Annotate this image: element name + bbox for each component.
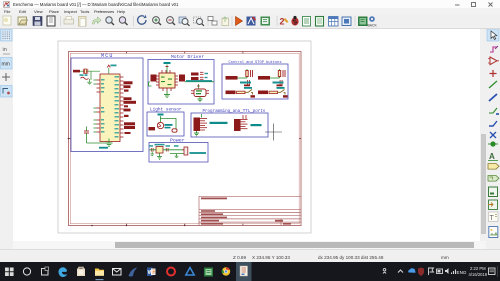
- BOM: [316, 17, 324, 27]
- resistor R6: [172, 129, 177, 132]
- net labels right of MCU: [124, 81, 137, 129]
- svg-text:2:22 PM: 2:22 PM: [470, 266, 486, 271]
- svg-text:Power: Power: [170, 138, 185, 144]
- motor connector J2: [151, 75, 157, 82]
- save: [33, 17, 42, 26]
- edit symbol fields table: [329, 17, 339, 27]
- J6 pins: [241, 120, 248, 129]
- edit fields: [303, 17, 311, 27]
- show desktop divider: [497, 266, 499, 277]
- capacitor below wire: [248, 80, 250, 86]
- DC jack J7: [183, 147, 188, 155]
- svg-text:Programming_ana_TTL_ports: Programming_ana_TTL_ports: [203, 109, 266, 114]
- active app: eeschema: [236, 262, 252, 281]
- triangle app: [186, 268, 194, 276]
- driver IC inner text: [161, 77, 172, 86]
- library browser: [261, 17, 271, 26]
- svg-text:mm: mm: [2, 62, 10, 68]
- J6 field text: [251, 124, 262, 126]
- Programming section box: [191, 113, 268, 137]
- ground below crystal: [87, 79, 92, 85]
- wire to bus entry: [489, 108, 497, 113]
- resistor R5: [269, 91, 278, 93]
- J5 pins: [200, 119, 207, 131]
- capacitor C6 field text: [205, 73, 209, 74]
- zoom fit: [179, 17, 186, 23]
- scrollbars: [13, 241, 486, 249]
- right toolbar: [486, 29, 500, 262]
- vcc text: [174, 145, 179, 147]
- chrome: [222, 267, 230, 275]
- edge: [59, 267, 68, 277]
- page frame inner border: [70, 53, 299, 223]
- svg-text:W: W: [148, 270, 154, 276]
- capacitor below wire: [280, 80, 282, 86]
- net label stop1: [226, 91, 236, 95]
- Power section box: [149, 143, 208, 163]
- ERC ladybug: [291, 18, 298, 26]
- svg-text:in: in: [3, 47, 7, 53]
- decoupling capacitor C5: [84, 127, 89, 144]
- cursor shape: [2, 73, 10, 81]
- grid toggle (active): [1, 30, 13, 42]
- tray: people: [383, 268, 386, 273]
- cursor crosshair: [265, 124, 282, 141]
- net label btn2: [258, 76, 270, 80]
- stub below wire: [197, 84, 199, 89]
- switch SW1 label: [244, 87, 252, 89]
- footprint assign: [342, 17, 351, 26]
- units mm (active): [1, 58, 13, 70]
- MCU left pins: [97, 80, 101, 132]
- hierarchical label: [488, 176, 499, 182]
- motor driver IC U3: [159, 73, 175, 88]
- print (pale): [64, 19, 74, 24]
- run simulator (red play): [236, 17, 243, 26]
- svg-text:2: 2: [280, 17, 285, 27]
- ms office swoosh: [129, 268, 138, 277]
- left toolbar: [0, 29, 13, 262]
- J4 inner text: [196, 90, 202, 94]
- regulator U4: [156, 147, 163, 154]
- capacitor C6: [200, 72, 204, 79]
- separator: [354, 16, 356, 26]
- find: [106, 17, 112, 23]
- wire to MCU ground: [87, 142, 110, 144]
- field text: [240, 82, 251, 84]
- svg-text:Control and STOP buttons: Control and STOP buttons: [229, 60, 282, 65]
- crystal Y1: [83, 69, 88, 74]
- opera: [167, 268, 175, 276]
- paste (pale): [79, 17, 87, 27]
- vout text: [166, 145, 171, 147]
- resistor R3: [278, 70, 285, 77]
- no connect flag: [490, 132, 496, 138]
- place wire: [489, 81, 497, 88]
- sheet page outline: [58, 41, 311, 233]
- mail: [113, 269, 122, 276]
- U4 field text: [155, 144, 165, 146]
- switch SW2: [278, 90, 286, 95]
- net label motor_b: [191, 77, 199, 80]
- net label stop2: [258, 91, 268, 95]
- open schematic: [18, 17, 27, 25]
- ground: [251, 95, 256, 97]
- place bus: [489, 94, 497, 101]
- ground below J4: [198, 97, 203, 102]
- resistor R2: [246, 70, 253, 77]
- zoom out: [167, 17, 174, 24]
- MCU IC U1 body: [100, 74, 120, 142]
- TTL connector J6: [234, 119, 241, 131]
- windows taskbar: [0, 262, 500, 281]
- svg-text:Motor Driver: Motor Driver: [171, 54, 204, 60]
- ground: [283, 95, 288, 97]
- net label XTAL1: [73, 70, 80, 73]
- tray: onedrive cloud: [408, 268, 415, 273]
- svg-text:ENG: ENG: [457, 270, 467, 275]
- tray: flag icon: [429, 268, 434, 275]
- DC jack field text: [190, 152, 207, 154]
- vcc stub: [279, 69, 281, 78]
- power wires: [150, 150, 184, 154]
- task view: [42, 269, 49, 276]
- file explorer: [95, 269, 104, 276]
- global label: [488, 164, 499, 170]
- vcc flag: [158, 114, 164, 116]
- power flag VCC above MCU: [107, 65, 116, 75]
- navigate hierarchy: [208, 17, 213, 21]
- separator: [231, 16, 233, 26]
- Control section box: [222, 64, 288, 99]
- highlight net: [490, 47, 497, 52]
- MCU section box: [71, 58, 143, 152]
- svg-text:BACK: BACK: [368, 24, 378, 28]
- page frame outer border: [69, 52, 302, 226]
- wire: [238, 77, 248, 79]
- J4 pins: [191, 91, 209, 94]
- connector J4: [194, 89, 206, 97]
- bus to bus entry: [489, 121, 497, 126]
- store: [77, 269, 85, 277]
- ground mid: [175, 154, 179, 158]
- tray: chevron: [398, 270, 403, 273]
- page settings: [47, 16, 55, 26]
- status bar: [0, 249, 500, 262]
- output cap C8: [166, 148, 168, 152]
- ground below U4: [157, 153, 162, 159]
- separator: [276, 16, 278, 26]
- top toolbar: [0, 14, 500, 29]
- phototransistor Q1: [157, 122, 163, 128]
- zoom in: [153, 17, 160, 24]
- start button: [5, 268, 14, 277]
- hierarchical sheet: [489, 187, 498, 197]
- svg-text:T: T: [490, 215, 495, 222]
- J6 top marks: [243, 115, 246, 119]
- find/replace: [119, 17, 125, 23]
- svg-text:MCU: MCU: [101, 53, 114, 59]
- power flag above driver: [164, 62, 171, 73]
- driver IC pins: [156, 70, 178, 91]
- net label field text below: [125, 132, 131, 134]
- tray: network: [452, 270, 456, 275]
- zoom selection: [194, 17, 201, 23]
- new schematic (pale): [3, 16, 11, 25]
- wire: [270, 77, 280, 79]
- place symbol: [490, 57, 497, 65]
- canvas: [13, 29, 480, 241]
- frame corner dots: [68, 138, 186, 227]
- wire net label text: [186, 80, 212, 82]
- menu bar: [0, 8, 500, 14]
- programming connector J5: [194, 118, 201, 132]
- select tool (active): [487, 29, 499, 41]
- place image: [489, 227, 498, 238]
- Light sensor section box: [147, 112, 184, 136]
- separator: [60, 16, 62, 26]
- crystal value 16MHz: [80, 74, 84, 76]
- separator: [133, 16, 135, 26]
- window title bar: [0, 0, 500, 8]
- ground below MCU: [99, 139, 113, 149]
- run pcbnew: [358, 17, 368, 27]
- wire crystal to MCU: [80, 70, 100, 72]
- tray: volume: [445, 268, 449, 274]
- MCU right pins: [120, 77, 124, 137]
- svg-text:4/16/2019: 4/16/2019: [469, 272, 488, 277]
- J5 green stub: [201, 114, 203, 118]
- net label motor_a: [191, 73, 199, 76]
- tray: battery: [437, 269, 443, 274]
- svg-text:Light sensor: Light sensor: [150, 108, 182, 113]
- MCU pin name text specks: [101, 76, 119, 137]
- Motor Driver section box: [148, 60, 214, 105]
- tray: defender shield: [418, 268, 424, 277]
- input cap C7: [151, 148, 153, 152]
- back import: [369, 16, 375, 22]
- motor connector J3: [179, 75, 185, 82]
- import sheet pin: [489, 200, 498, 210]
- load capacitors C1 C2: [81, 77, 89, 79]
- MCU left green wire stubs: [94, 80, 97, 132]
- hidden pins (active): [1, 86, 13, 98]
- title block text: [201, 198, 291, 225]
- ground below driver: [164, 91, 170, 98]
- ground left: [150, 152, 154, 156]
- word: [147, 268, 153, 277]
- title block outline: [199, 196, 301, 225]
- wire: [161, 116, 177, 130]
- separator: [207, 16, 209, 26]
- symbol editor: [247, 17, 256, 26]
- wire left of driver: [149, 82, 152, 86]
- cortana: [23, 268, 30, 275]
- notification center: [489, 268, 496, 275]
- vcc stub: [246, 69, 248, 78]
- ground below J5: [194, 131, 199, 136]
- field text: [165, 124, 173, 126]
- vin text: [149, 145, 153, 147]
- net label btn1: [226, 76, 238, 80]
- field text: [273, 82, 284, 84]
- resistor R4: [237, 91, 246, 93]
- switch SW1: [245, 90, 253, 95]
- leave sheet (pale): [222, 18, 229, 26]
- refresh view: [138, 16, 146, 24]
- place text: [489, 212, 499, 222]
- frame zone tick marks: [69, 52, 302, 226]
- kicad green app: [204, 268, 213, 277]
- net label sensor: [149, 127, 156, 130]
- svg-text:A: A: [489, 152, 495, 161]
- junction: [490, 141, 495, 146]
- wire driver output: [185, 81, 214, 83]
- switch SW2 label: [277, 87, 285, 89]
- J5 field text: [210, 122, 228, 124]
- undo (pale green): [93, 17, 102, 24]
- place power port: [490, 70, 497, 77]
